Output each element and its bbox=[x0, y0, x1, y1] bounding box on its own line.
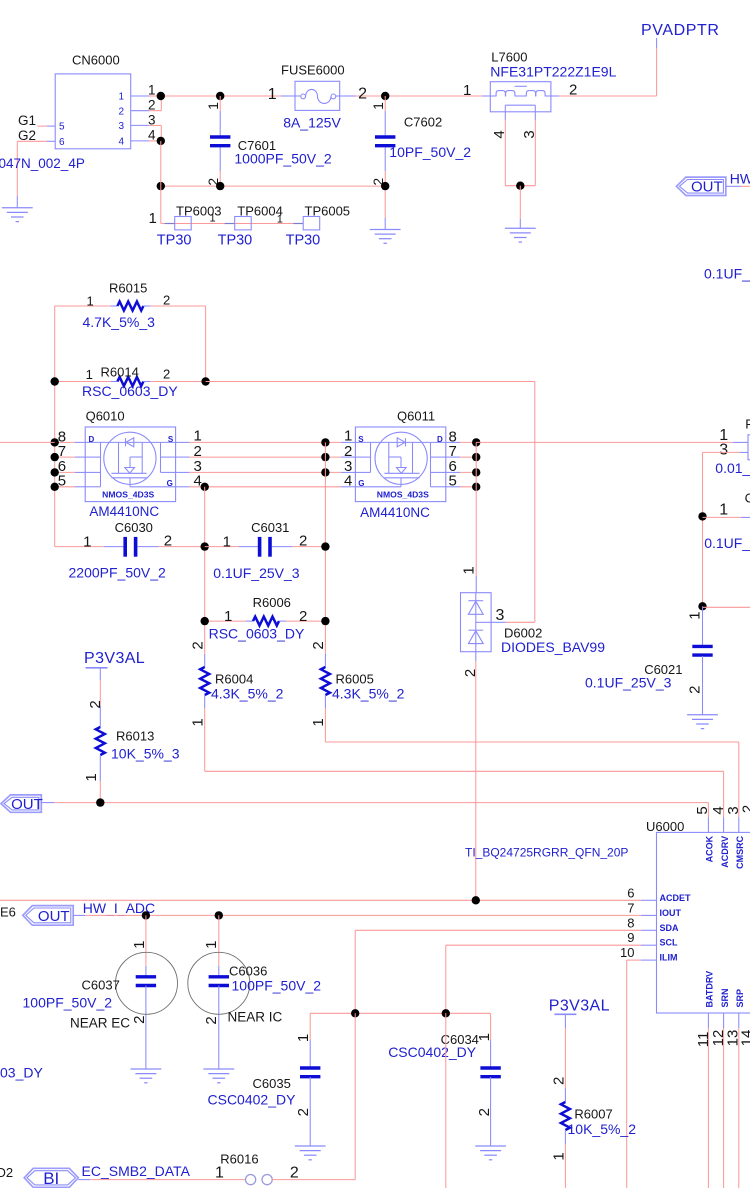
svg-text:R6014: R6014 bbox=[101, 365, 139, 380]
svg-text:2: 2 bbox=[163, 366, 170, 381]
svg-text:NEAR IC: NEAR IC bbox=[228, 1010, 283, 1025]
svg-text:10K_5%_2: 10K_5%_2 bbox=[568, 1121, 637, 1137]
svg-text:1: 1 bbox=[223, 533, 231, 550]
svg-text:10K_5%_3: 10K_5%_3 bbox=[111, 746, 180, 762]
svg-text:U6000: U6000 bbox=[646, 819, 684, 834]
svg-text:1: 1 bbox=[224, 608, 232, 625]
svg-text:R: R bbox=[745, 417, 750, 432]
svg-text:1: 1 bbox=[205, 102, 221, 110]
svg-text:2: 2 bbox=[163, 293, 170, 308]
svg-text:CSC0402_DY: CSC0402_DY bbox=[208, 1092, 297, 1108]
svg-text:3: 3 bbox=[118, 121, 124, 132]
svg-text:DIODES_BAV99: DIODES_BAV99 bbox=[501, 639, 605, 655]
svg-text:03_DY: 03_DY bbox=[0, 1065, 43, 1081]
svg-text:CN6000: CN6000 bbox=[72, 53, 120, 68]
svg-text:1: 1 bbox=[719, 502, 728, 519]
svg-text:7: 7 bbox=[627, 900, 634, 915]
svg-text:Q6011: Q6011 bbox=[397, 408, 435, 423]
svg-text:TP30: TP30 bbox=[218, 233, 253, 249]
svg-text:CMSRC: CMSRC bbox=[735, 835, 745, 868]
svg-text:1: 1 bbox=[190, 718, 207, 726]
svg-text:G: G bbox=[167, 479, 173, 488]
svg-text:2: 2 bbox=[290, 1164, 299, 1181]
svg-text:1: 1 bbox=[210, 212, 216, 224]
svg-text:G1: G1 bbox=[18, 113, 36, 128]
svg-text:Q6010: Q6010 bbox=[86, 408, 125, 423]
svg-text:2: 2 bbox=[687, 686, 704, 694]
svg-text:10PF_50V_2: 10PF_50V_2 bbox=[389, 144, 471, 160]
svg-text:S: S bbox=[358, 435, 364, 444]
svg-text:L7600: L7600 bbox=[491, 50, 527, 65]
svg-text:1: 1 bbox=[149, 210, 157, 227]
svg-text:IOUT: IOUT bbox=[660, 908, 682, 918]
svg-text:NMOS_4D3S: NMOS_4D3S bbox=[102, 490, 154, 500]
svg-text:3: 3 bbox=[719, 442, 728, 459]
svg-text:2: 2 bbox=[131, 1016, 148, 1024]
svg-text:1000PF_50V_2: 1000PF_50V_2 bbox=[234, 151, 332, 167]
svg-text:R6013: R6013 bbox=[116, 729, 154, 744]
svg-text:R6015: R6015 bbox=[109, 281, 147, 296]
svg-text:ACDRV: ACDRV bbox=[720, 836, 730, 868]
svg-text:2: 2 bbox=[462, 669, 479, 677]
svg-text:4.7K_5%_3: 4.7K_5%_3 bbox=[83, 314, 156, 330]
svg-text:C7602: C7602 bbox=[404, 115, 442, 130]
svg-text:NFE31PT222Z1E9L: NFE31PT222Z1E9L bbox=[490, 64, 616, 80]
svg-text:TP30: TP30 bbox=[286, 233, 321, 249]
svg-text:2: 2 bbox=[295, 1108, 312, 1116]
svg-text:D: D bbox=[89, 435, 95, 444]
svg-text:TP6005: TP6005 bbox=[305, 204, 351, 219]
svg-text:6: 6 bbox=[59, 137, 65, 148]
svg-text:ACOK: ACOK bbox=[705, 835, 715, 862]
svg-text:1: 1 bbox=[461, 566, 478, 574]
svg-text:RSC_0603_DY: RSC_0603_DY bbox=[82, 383, 178, 399]
svg-text:2: 2 bbox=[299, 533, 307, 550]
svg-text:R6005: R6005 bbox=[336, 672, 374, 687]
svg-text:0.01_1: 0.01_1 bbox=[715, 460, 750, 476]
svg-text:RSC_0603_DY: RSC_0603_DY bbox=[209, 625, 305, 641]
svg-text:5: 5 bbox=[59, 122, 65, 133]
svg-text:0.1UF_2: 0.1UF_2 bbox=[704, 266, 750, 282]
svg-text:5: 5 bbox=[449, 473, 457, 490]
svg-text:CSC0402_DY: CSC0402_DY bbox=[388, 1044, 477, 1060]
svg-text:OUT: OUT bbox=[11, 796, 43, 813]
svg-text:3: 3 bbox=[496, 607, 505, 624]
svg-text:4: 4 bbox=[148, 128, 156, 143]
svg-text:C6037: C6037 bbox=[82, 978, 120, 993]
svg-text:2: 2 bbox=[358, 85, 367, 102]
svg-text:BATDRV: BATDRV bbox=[705, 971, 715, 1008]
svg-text:4: 4 bbox=[118, 137, 124, 148]
svg-text:FUSE6000: FUSE6000 bbox=[281, 63, 345, 78]
svg-text:TI_BQ24725RGRR_QFN_20P: TI_BQ24725RGRR_QFN_20P bbox=[465, 846, 628, 860]
svg-text:SDA: SDA bbox=[660, 923, 680, 933]
svg-text:E6: E6 bbox=[0, 905, 16, 920]
svg-text:2: 2 bbox=[190, 641, 207, 649]
svg-text:2: 2 bbox=[203, 1016, 220, 1024]
svg-text:4: 4 bbox=[344, 473, 352, 490]
svg-text:C6030: C6030 bbox=[115, 520, 153, 535]
svg-text:AM4410NC: AM4410NC bbox=[360, 505, 430, 520]
svg-text:5: 5 bbox=[694, 806, 711, 814]
svg-text:TP30: TP30 bbox=[157, 233, 192, 249]
svg-text:C: C bbox=[745, 491, 750, 506]
svg-text:2: 2 bbox=[299, 608, 307, 625]
svg-text:1: 1 bbox=[86, 367, 93, 382]
svg-text:1: 1 bbox=[83, 773, 100, 781]
svg-text:1: 1 bbox=[83, 533, 91, 550]
svg-text:4.3K_5%_2: 4.3K_5%_2 bbox=[332, 686, 405, 702]
svg-text:2: 2 bbox=[118, 106, 124, 117]
svg-text:100PF_50V_2: 100PF_50V_2 bbox=[23, 995, 113, 1011]
svg-text:HW_I: HW_I bbox=[730, 171, 750, 187]
svg-text:9: 9 bbox=[627, 930, 634, 945]
svg-text:S: S bbox=[168, 435, 174, 444]
svg-text:1: 1 bbox=[277, 214, 283, 226]
svg-text:1: 1 bbox=[203, 941, 220, 949]
svg-text:AM4410NC: AM4410NC bbox=[89, 504, 159, 519]
svg-text:0.1UF_2: 0.1UF_2 bbox=[704, 535, 750, 551]
svg-text:OUT: OUT bbox=[38, 908, 70, 925]
svg-text:1: 1 bbox=[131, 941, 148, 949]
svg-text:ILIM: ILIM bbox=[660, 953, 678, 963]
svg-text:1: 1 bbox=[295, 1034, 312, 1042]
svg-text:1: 1 bbox=[268, 86, 277, 103]
svg-text:R6007: R6007 bbox=[574, 1107, 612, 1122]
svg-text:OUT: OUT bbox=[691, 179, 723, 196]
svg-text:8: 8 bbox=[627, 915, 634, 930]
svg-text:1: 1 bbox=[118, 92, 124, 103]
svg-text:047N_002_4P: 047N_002_4P bbox=[0, 156, 85, 171]
svg-text:PVADPTR: PVADPTR bbox=[641, 22, 720, 39]
svg-text:4.3K_5%_2: 4.3K_5%_2 bbox=[211, 686, 284, 702]
svg-text:EC_SMB2_DATA: EC_SMB2_DATA bbox=[82, 1163, 191, 1179]
svg-text:1: 1 bbox=[310, 718, 327, 726]
svg-text:3: 3 bbox=[148, 113, 156, 128]
svg-text:SRN: SRN bbox=[720, 988, 730, 1007]
svg-text:R6016: R6016 bbox=[220, 1152, 258, 1167]
svg-text:2: 2 bbox=[164, 533, 172, 550]
svg-text:SRP: SRP bbox=[735, 989, 745, 1008]
svg-text:D2: D2 bbox=[0, 1165, 13, 1180]
svg-text:1: 1 bbox=[148, 83, 156, 98]
svg-text:2: 2 bbox=[569, 82, 577, 99]
svg-text:2: 2 bbox=[740, 805, 750, 813]
svg-text:2: 2 bbox=[87, 700, 104, 708]
svg-text:NEAR EC: NEAR EC bbox=[70, 1016, 130, 1031]
svg-text:1: 1 bbox=[87, 293, 94, 308]
svg-text:P3V3AL: P3V3AL bbox=[84, 650, 145, 667]
svg-text:1: 1 bbox=[215, 1164, 224, 1181]
svg-text:100PF_50V_2: 100PF_50V_2 bbox=[232, 978, 322, 994]
svg-text:2: 2 bbox=[476, 1108, 493, 1116]
svg-text:8A_125V: 8A_125V bbox=[283, 115, 341, 131]
svg-text:BI: BI bbox=[43, 1169, 59, 1188]
svg-text:1: 1 bbox=[463, 82, 471, 99]
svg-text:ACDET: ACDET bbox=[660, 893, 692, 903]
svg-text:0.1UF_25V_3: 0.1UF_25V_3 bbox=[585, 675, 672, 691]
svg-text:P3V3AL: P3V3AL bbox=[549, 998, 610, 1015]
svg-text:G2: G2 bbox=[18, 128, 36, 143]
svg-text:0.1UF_25V_3: 0.1UF_25V_3 bbox=[213, 565, 300, 581]
svg-text:5: 5 bbox=[58, 473, 66, 490]
svg-text:2: 2 bbox=[148, 97, 156, 112]
svg-text:G: G bbox=[358, 479, 364, 488]
svg-text:2200PF_50V_2: 2200PF_50V_2 bbox=[69, 565, 167, 581]
svg-text:C6031: C6031 bbox=[251, 520, 289, 535]
svg-text:6: 6 bbox=[627, 885, 634, 900]
svg-text:2: 2 bbox=[310, 641, 327, 649]
svg-text:D: D bbox=[437, 435, 443, 444]
svg-text:C6036: C6036 bbox=[229, 964, 267, 979]
svg-text:1: 1 bbox=[370, 102, 386, 110]
svg-text:NMOS_4D3S: NMOS_4D3S bbox=[377, 490, 429, 500]
svg-text:R6006: R6006 bbox=[253, 595, 291, 610]
svg-text:R6004: R6004 bbox=[215, 672, 253, 687]
svg-text:1: 1 bbox=[551, 1152, 568, 1160]
svg-text:10: 10 bbox=[620, 945, 634, 960]
svg-text:2: 2 bbox=[551, 1077, 568, 1085]
svg-text:14: 14 bbox=[739, 1030, 750, 1047]
svg-text:1: 1 bbox=[687, 611, 704, 619]
svg-text:1: 1 bbox=[476, 1033, 493, 1041]
svg-text:C6035: C6035 bbox=[253, 1076, 291, 1091]
svg-text:SCL: SCL bbox=[660, 938, 679, 948]
